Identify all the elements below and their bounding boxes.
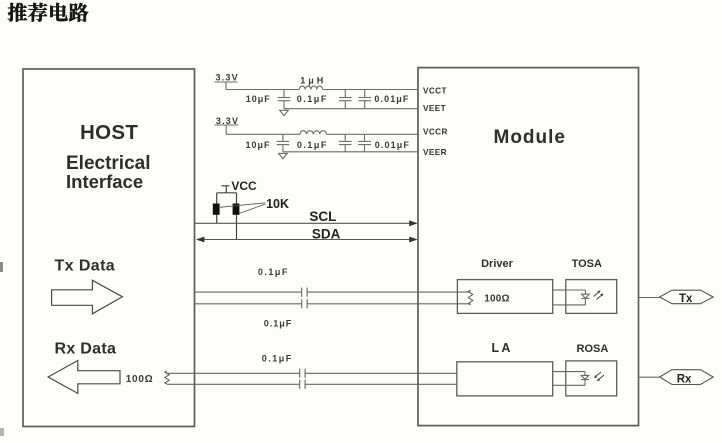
svg-text:100Ω: 100Ω — [484, 294, 510, 305]
svg-text:ROSA: ROSA — [577, 343, 609, 355]
svg-text:HOST: HOST — [80, 121, 138, 144]
svg-text:0.1μF: 0.1μF — [264, 318, 293, 328]
svg-text:VEET: VEET — [423, 104, 446, 113]
svg-text:0.1μF: 0.1μF — [258, 267, 289, 277]
svg-text:10μF: 10μF — [246, 94, 271, 104]
svg-text:VCCT: VCCT — [423, 87, 447, 96]
svg-text:VEER: VEER — [423, 148, 447, 157]
svg-text:Tx: Tx — [679, 293, 693, 305]
svg-text:Tx Data: Tx Data — [55, 257, 116, 274]
svg-text:Driver: Driver — [481, 258, 514, 270]
svg-text:0.1μF: 0.1μF — [262, 354, 293, 364]
svg-text:3.3V: 3.3V — [216, 73, 239, 83]
svg-text:0.01μF: 0.01μF — [374, 94, 409, 104]
svg-text:Module: Module — [494, 127, 567, 148]
svg-text:SCL: SCL — [309, 209, 336, 224]
svg-text:LA: LA — [492, 341, 513, 355]
svg-text:Rx Data: Rx Data — [55, 341, 117, 358]
svg-text:10μF: 10μF — [246, 140, 271, 150]
svg-text:100Ω: 100Ω — [126, 374, 154, 385]
svg-text:10K: 10K — [266, 197, 289, 211]
svg-text:0.1μF: 0.1μF — [297, 94, 328, 104]
svg-text:Interface: Interface — [66, 171, 143, 192]
svg-text:3.3V: 3.3V — [216, 116, 239, 126]
svg-text:VCCR: VCCR — [423, 128, 448, 137]
svg-text:Rx: Rx — [677, 374, 692, 386]
svg-text:0.1μF: 0.1μF — [297, 140, 328, 150]
svg-text:VCC: VCC — [231, 179, 257, 193]
svg-text:1μH: 1μH — [300, 76, 326, 86]
svg-text:SDA: SDA — [312, 227, 341, 242]
svg-text:0.01μF: 0.01μF — [375, 140, 410, 150]
svg-text:TOSA: TOSA — [572, 258, 602, 270]
